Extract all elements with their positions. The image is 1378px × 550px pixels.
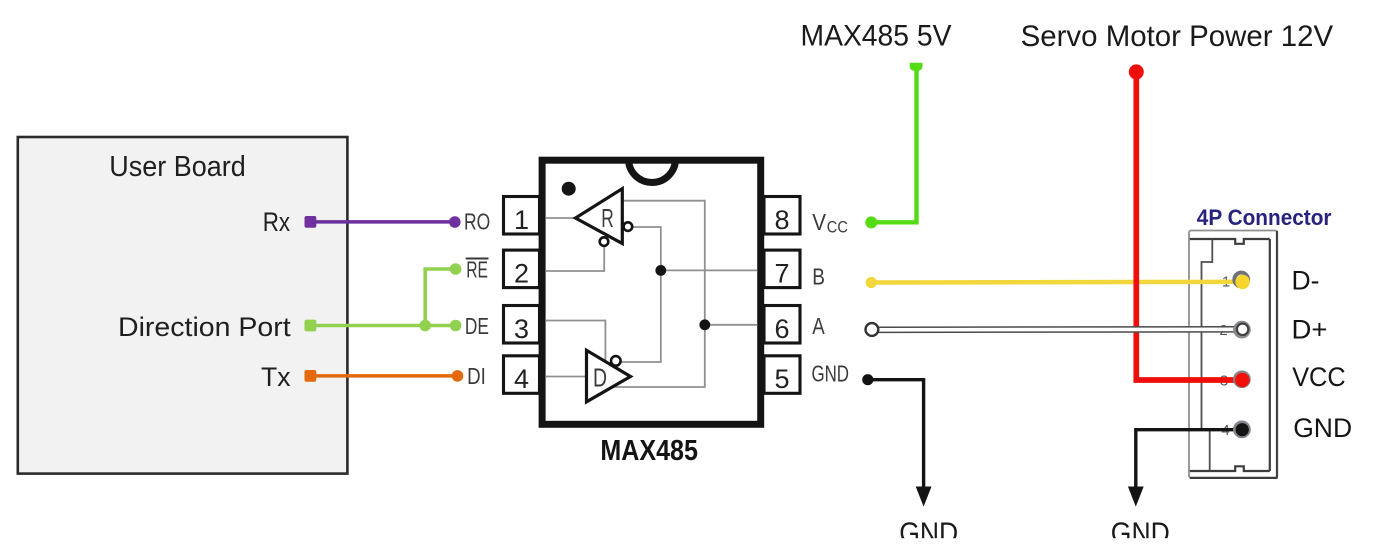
svg-text:CC: CC [827,218,848,237]
junction node A (pin 6) [699,319,710,330]
user board box [18,137,348,474]
Direction Port pin marker (green square) [305,320,317,332]
receiver amp R [576,189,633,246]
connector pin 4 ring [1235,423,1249,437]
node RO terminal dot [449,216,461,228]
node RE terminal dot [450,263,462,275]
svg-text:D+: D+ [1292,315,1328,345]
svg-text:VCC: VCC [1292,362,1345,392]
node DI terminal dot [452,370,464,382]
pin 1 box [504,197,540,235]
internal net RO wire [546,217,576,219]
wire 12V to connector VCC (red) [1136,72,1242,380]
svg-text:Servo Motor Power 12V: Servo Motor Power 12V [1021,20,1334,53]
node B wire start dot (yellow) [866,277,877,288]
pin 6 box [764,306,800,344]
pin 4 box [504,356,540,394]
svg-text:DI: DI [467,363,486,389]
wire Rx to RO (purple) [310,220,454,224]
svg-text:A: A [812,313,825,339]
svg-text:Direction Port: Direction Port [118,312,291,342]
wire A to D+ (white with outline) [872,326,1243,333]
connector pin 2 terminal marker D+ (hollow) [1237,324,1248,335]
wire GND from pin 5 with arrow [868,380,932,507]
svg-text:R: R [601,203,614,233]
connector pin 3 terminal dot VCC (red) [1235,373,1250,388]
node DE terminal dot [450,320,462,332]
svg-text:V: V [812,209,826,235]
svg-text:4P Connector: 4P Connector [1197,205,1332,230]
internal net RE wire [546,246,604,271]
svg-text:B: B [812,263,825,289]
bottom crop slice over GND labels [880,538,1180,550]
svg-text:User Board: User Board [109,151,245,183]
svg-text:Tx: Tx [261,362,291,392]
junction node B (pin 7) [655,265,666,276]
12V supply node dot (red) [1129,64,1144,79]
wire connector GND with arrow [1128,430,1242,507]
svg-text:4: 4 [514,364,529,394]
svg-text:MAX485 5V: MAX485 5V [801,20,952,53]
connector pin 1 terminal dot D- (yellow) [1235,275,1249,289]
connector pin 4 terminal dot GND (black) [1236,423,1249,436]
pin label VCC [812,209,848,237]
svg-text:2: 2 [514,258,529,288]
svg-text:DE: DE [465,313,489,339]
pin 7 box [764,250,800,288]
node VCC terminal dot [865,216,877,228]
svg-text:Rx: Rx [263,207,290,237]
svg-text:5: 5 [774,364,789,394]
wire Tx to DI (orange) [310,374,456,378]
svg-text:GND: GND [812,361,850,387]
pin 3 box [504,306,540,344]
pin 8 box [764,197,800,235]
internal net B wire (R bubble to pin 7 and D bubble) [622,227,758,362]
wire Direction Port to DE (green) [310,324,455,328]
Rx pin marker (purple square) [305,216,317,228]
junction dot on DE wire [419,320,431,332]
wire B to D- (yellow) [871,280,1242,285]
svg-text:1: 1 [514,205,529,235]
node A wire start marker (hollow) [866,323,879,336]
pin 5 box [764,356,800,394]
IC U1 MAX485 body [542,160,761,424]
node GND terminal dot (pin 5) [862,374,873,385]
internal net DE wire [546,321,605,362]
driver amp D [587,350,631,402]
svg-text:RE: RE [466,256,488,282]
svg-text:3: 3 [514,314,529,344]
svg-text:RO: RO [464,209,490,235]
connector pin 2 ring [1235,323,1249,337]
connector pin 1 ring [1234,273,1248,287]
connector J1 body [1189,231,1278,479]
wire 5V to VCC (bright green) [874,69,917,222]
wire branch DE to RE (green) [425,269,455,326]
svg-text:MAX485: MAX485 [600,435,698,467]
svg-text:D: D [593,363,607,393]
internal net DI wire [546,376,587,378]
Tx pin marker (orange square) [305,370,317,382]
svg-text:7: 7 [774,258,789,288]
internal net A wire (R input to pin 6 and D output) [614,201,758,387]
svg-text:8: 8 [774,205,789,235]
5V supply marker (green) [910,63,923,71]
pin 2 box [504,250,540,288]
svg-text:GND: GND [1293,413,1352,443]
pin-1 orientation notch [629,159,676,183]
connector pin 3 ring [1235,372,1249,386]
svg-text:6: 6 [774,314,789,344]
pin-1 marker dot [562,182,576,196]
svg-text:D-: D- [1292,266,1320,296]
